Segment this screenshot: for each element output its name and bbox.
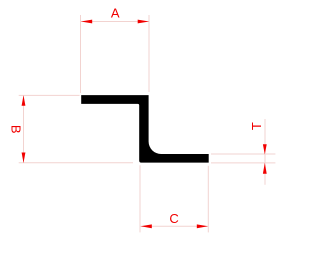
- dim T extension line bottom: [211, 162, 275, 164]
- dim C extension line right: [207, 166, 209, 233]
- dim C line: [141, 225, 209, 227]
- dim C arrow right: [197, 224, 208, 228]
- dim A extension line right: [148, 15, 150, 92]
- dim A arrow right: [138, 20, 149, 24]
- dim A line: [81, 21, 149, 23]
- dim A arrow left: [81, 20, 92, 24]
- dim B extension line top: [19, 94, 80, 96]
- dim B arrow top: [22, 95, 26, 106]
- dim C extension line left: [139, 165, 141, 232]
- svg-text:B: B: [9, 125, 24, 134]
- dim T arrow top (pointing down): [263, 144, 267, 154]
- svg-text:A: A: [111, 5, 120, 20]
- dim C arrow left: [141, 224, 152, 228]
- dim T arrow bottom (pointing up): [263, 163, 267, 174]
- dim T line: [264, 119, 266, 185]
- dim B line: [23, 96, 25, 163]
- dim A extension line left: [80, 15, 82, 93]
- dim T extension line top: [211, 153, 275, 155]
- Z-profile cross-section: [81, 95, 209, 163]
- svg-text:C: C: [169, 211, 178, 226]
- dim B extension line bottom: [19, 162, 133, 164]
- dim B arrow bottom: [22, 153, 26, 164]
- svg-text:T: T: [249, 122, 264, 130]
